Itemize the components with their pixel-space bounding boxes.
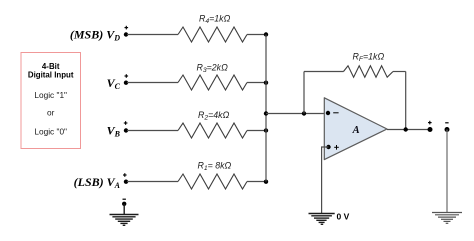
label RF=1kOhm bbox=[353, 52, 385, 64]
node junction bus-R1 bbox=[264, 180, 268, 184]
output terminal minus bbox=[445, 123, 450, 132]
summing bus wire (vertical) bbox=[265, 35, 267, 182]
svg-text:Logic "0": Logic "0" bbox=[34, 127, 67, 137]
output terminal plus bbox=[428, 121, 433, 132]
ground 0V bbox=[309, 214, 335, 225]
svg-text:R1= 8kΩ: R1= 8kΩ bbox=[198, 161, 232, 173]
label R2=4kOhm bbox=[198, 110, 230, 122]
wire minus terminal to ground bbox=[123, 204, 125, 214]
svg-text:A: A bbox=[352, 125, 360, 136]
svg-text:0 V: 0 V bbox=[337, 212, 350, 222]
node feedback tap junction bbox=[302, 111, 306, 115]
svg-text:RF=1kΩ: RF=1kΩ bbox=[353, 52, 385, 64]
wire feedback left vertical bbox=[303, 72, 305, 114]
wire VA to R1 bbox=[127, 181, 178, 183]
resistor R2 bbox=[178, 123, 247, 138]
input terminal VC bbox=[107, 74, 129, 91]
wire feedback right vertical bbox=[405, 72, 407, 130]
legend box: 4-Bit Digital Input bbox=[21, 53, 81, 149]
label R3=2kOhm bbox=[197, 63, 229, 75]
wire op-amp output bbox=[387, 129, 430, 131]
node output-feedback junction bbox=[404, 127, 408, 131]
resistor R4 bbox=[178, 27, 247, 42]
op-amp A bbox=[324, 98, 387, 160]
input reference minus terminal bbox=[122, 199, 126, 206]
ground input reference bbox=[110, 215, 139, 226]
ground output reference bbox=[432, 213, 462, 224]
resistor R3 bbox=[178, 75, 247, 90]
wire bus to op-amp inverting input bbox=[266, 113, 328, 115]
input terminal VB bbox=[107, 121, 129, 138]
node junction bus-R2 bbox=[264, 128, 268, 132]
svg-text:or: or bbox=[47, 108, 55, 118]
node junction bus-R4 bbox=[264, 32, 268, 36]
wire R1 to bus bbox=[247, 181, 266, 183]
node op-amp non-inverting input pin bbox=[326, 145, 330, 149]
svg-text:Digital Input: Digital Input bbox=[28, 71, 74, 80]
svg-text:Logic "1": Logic "1" bbox=[34, 90, 67, 100]
wire R2 to bus bbox=[247, 130, 266, 132]
svg-text:R4=1kΩ: R4=1kΩ bbox=[199, 14, 231, 26]
wire VB to R2 bbox=[127, 130, 178, 132]
wire R3 to bus bbox=[247, 82, 266, 84]
resistor R1 bbox=[178, 174, 247, 189]
wire output minus to ground bbox=[446, 130, 448, 213]
input terminal VA (LSB) bbox=[74, 173, 129, 190]
wire VC to R3 bbox=[127, 82, 178, 84]
input terminal VD (MSB) bbox=[70, 26, 128, 43]
label R4=1kOhm bbox=[199, 14, 231, 26]
label 0 V bbox=[337, 212, 350, 222]
node summing junction on bus bbox=[264, 111, 268, 115]
label R1=8kOhm bbox=[198, 161, 232, 173]
wire feedback top right bbox=[393, 71, 406, 73]
svg-text:R2=4kΩ: R2=4kΩ bbox=[198, 110, 230, 122]
wire feedback top left bbox=[304, 71, 344, 73]
wire non-inverting input to ground bbox=[322, 147, 329, 213]
node junction bus-R3 bbox=[264, 81, 268, 85]
wire R4 to bus bbox=[247, 34, 266, 36]
resistor RF bbox=[344, 66, 394, 77]
svg-text:(LSB) VA: (LSB) VA bbox=[74, 175, 121, 190]
svg-text:R3=2kΩ: R3=2kΩ bbox=[197, 63, 229, 75]
wire VD to R4 bbox=[127, 34, 178, 36]
svg-text:(MSB) VD: (MSB) VD bbox=[70, 28, 120, 43]
node op-amp inverting input pin bbox=[326, 111, 330, 115]
